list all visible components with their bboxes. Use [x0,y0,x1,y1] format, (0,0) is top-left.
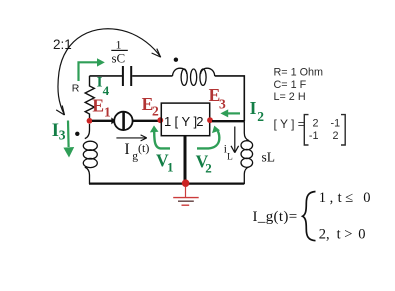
resistor R (zigzag) [85,76,94,118]
current source input arrowhead [111,117,115,124]
transformer primary inductor (top) [173,68,215,85]
svg-text:L: L [227,153,233,163]
capacitor value label 1/sC [111,38,128,66]
svg-text:sC: sC [112,51,126,66]
ground stem wire from two-port [184,136,187,183]
current arrow I4 (green) [79,58,105,81]
svg-text:2:1: 2:1 [53,37,72,52]
svg-text:2: 2 [152,103,159,118]
svg-text:3: 3 [59,127,66,142]
svg-text:I: I [124,141,129,158]
svg-text:t >: t > [337,226,353,242]
wire top rail left (resistor top to capacitor) [90,75,123,77]
node E1 dot [87,118,93,124]
inductor current arrow iL [231,127,239,153]
svg-text:1: 1 [167,160,174,175]
svg-text:0: 0 [358,226,365,242]
svg-text:[ Y ]: [ Y ] [175,114,198,129]
svg-text:[ Y ] =: [ Y ] = [274,117,305,131]
svg-text:2: 2 [333,130,339,142]
wire capacitor to top inductor [132,75,172,77]
svg-text:(t): (t) [138,141,149,155]
bottom rail wire [89,183,244,185]
svg-text:1: 1 [104,104,111,119]
svg-text:E: E [92,96,104,116]
polarity dot top inductor [174,58,178,62]
node E3 dot [207,117,213,123]
node E2 dot [157,117,163,123]
svg-text:C= 1 F: C= 1 F [274,79,307,91]
svg-text:2,: 2, [319,226,330,242]
wire E3 to right branch [212,120,244,122]
svg-text:I: I [250,98,257,118]
svg-text:2: 2 [196,114,203,129]
component values text R=1 Ohm [274,67,324,104]
current arrow I3 (green) [63,121,74,158]
svg-text:sL: sL [262,150,276,165]
capacitor C [123,66,131,86]
svg-text:1 ,: 1 , [319,190,334,206]
inductor sL (right coil) [241,121,253,184]
svg-text:t ≤: t ≤ [338,190,354,206]
wire current source to E2 [133,120,160,122]
svg-text:1: 1 [116,38,122,52]
source arrow Ig(t) [116,135,146,141]
admittance matrix brackets [304,115,345,145]
svg-text:2: 2 [205,161,212,176]
svg-text:3: 3 [219,96,226,111]
ground symbol [173,187,199,206]
svg-text:L= 2 H: L= 2 H [274,91,306,103]
coupling arc between transformer dots [56,29,161,115]
two-port network box [Y] [161,103,209,136]
svg-text:-1: -1 [331,118,341,130]
wire top rail right [215,76,245,121]
current source Ig circle [114,112,132,130]
current arrow I2 (green) [220,109,240,117]
svg-text:0: 0 [363,190,370,206]
source label Ig(t) [124,141,149,163]
piecewise brace [303,192,316,241]
wire E1 to current source [92,120,113,122]
svg-text:1: 1 [164,114,171,129]
current source bar [122,112,125,130]
svg-text:R: R [72,83,80,95]
transformer secondary inductor (left coil) [83,124,97,184]
svg-text:R= 1 Ohm: R= 1 Ohm [274,67,324,79]
admittance matrix entries [309,118,340,142]
svg-text:-1: -1 [309,130,319,142]
svg-text:I_g(t)=: I_g(t)= [253,209,298,225]
svg-text:2: 2 [313,118,319,130]
ground node dot (red) [182,179,190,187]
svg-text:2: 2 [257,109,264,124]
polarity dot left coil [75,132,79,136]
voltage arrow V1 (green) [150,125,170,148]
voltage arrow V2 (green) [197,126,220,149]
